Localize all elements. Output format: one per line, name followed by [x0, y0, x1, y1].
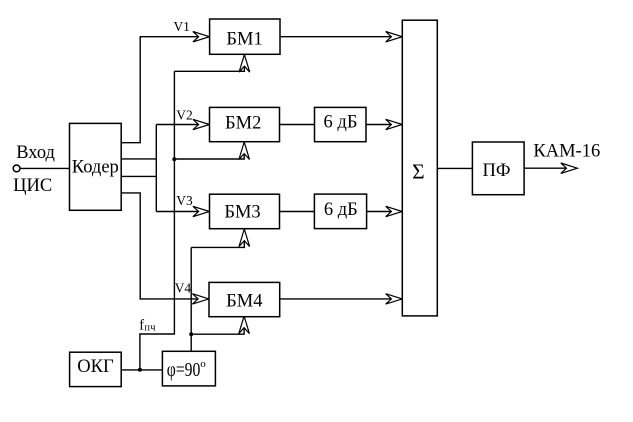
svg-text:Вход: Вход — [16, 143, 55, 163]
svg-text:V1: V1 — [174, 19, 190, 34]
svg-text:КАМ-16: КАМ-16 — [533, 141, 600, 161]
svg-text:V2: V2 — [176, 108, 192, 123]
svg-text:БМ1: БМ1 — [226, 30, 262, 50]
svg-text:БМ4: БМ4 — [226, 292, 262, 312]
svg-text:ПФ: ПФ — [483, 161, 511, 181]
svg-text:V4: V4 — [175, 281, 192, 296]
svg-text:БМ2: БМ2 — [225, 114, 261, 134]
svg-text:БМ3: БМ3 — [224, 203, 260, 223]
svg-text:V3: V3 — [176, 193, 193, 208]
svg-text:ЦИС: ЦИС — [13, 176, 52, 196]
svg-text:φ=90: φ=90 — [167, 359, 201, 381]
svg-text:Кодер: Кодер — [72, 158, 119, 178]
svg-text:Σ: Σ — [412, 160, 425, 184]
svg-text:о: о — [200, 358, 206, 370]
svg-text:6 дБ: 6 дБ — [324, 200, 358, 220]
svg-text:ОКГ: ОКГ — [77, 357, 114, 377]
svg-text:6 дБ: 6 дБ — [324, 113, 358, 133]
